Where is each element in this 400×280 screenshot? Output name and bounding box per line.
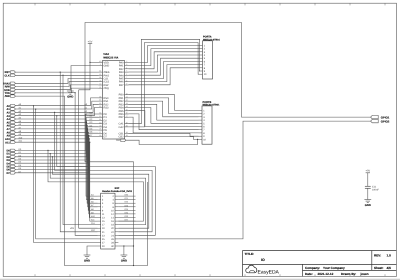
svg-text:GND: GND [365, 204, 371, 207]
wire CB1 to PORTB pin9 [129, 133, 199, 136]
node A8 flag [11, 131, 16, 134]
svg-text:1.0: 1.0 [387, 254, 392, 258]
node D7 flag [11, 172, 16, 175]
svg-text:6: 6 [126, 73, 127, 76]
wire D1 to VIA D1 [15, 117, 98, 153]
svg-text:18: 18 [126, 131, 128, 134]
svg-text:1: 1 [100, 63, 101, 66]
wire A0 branch to EXP pin27 [34, 106, 98, 243]
svg-text:29: 29 [99, 125, 101, 128]
wire TXD branch to EXP pin23 [75, 93, 97, 236]
svg-text:GND: GND [104, 65, 110, 68]
svg-text:W65C22-STB01: W65C22-STB01 [203, 103, 221, 106]
node D1 flag [11, 152, 16, 155]
svg-text:+5V: +5V [88, 40, 93, 43]
svg-text:PB7: PB7 [119, 116, 124, 119]
node D6 flag [11, 168, 16, 171]
node A9 flag [11, 134, 16, 137]
node /VIA2 flag [11, 82, 16, 85]
VIA2 right pins [119, 60, 129, 139]
svg-text:EasyEDA: EasyEDA [258, 270, 280, 276]
svg-text:34: 34 [99, 70, 101, 73]
svg-text:D7: D7 [104, 136, 108, 139]
svg-text:19: 19 [126, 134, 128, 137]
svg-text:7: 7 [126, 76, 127, 79]
svg-text:/WR: /WR [5, 95, 10, 98]
svg-text:12: 12 [126, 99, 128, 102]
svg-text:RS3: RS3 [104, 107, 110, 110]
connector EXP header body [101, 193, 115, 249]
svg-text:GND: GND [67, 95, 73, 98]
wire SOB to VIA [15, 85, 98, 90]
svg-text:27: 27 [99, 131, 101, 134]
svg-text:Date:: Date: [305, 272, 313, 276]
PORTA pins 1-10 [199, 44, 207, 76]
svg-text:13: 13 [126, 102, 128, 105]
node R/W flag [11, 85, 16, 88]
svg-text:/IRQ: /IRQ [104, 87, 109, 90]
svg-text:Header-Female-2.54_2x15: Header-Female-2.54_2x15 [102, 190, 132, 193]
node GPIO2 flag (right) [371, 119, 379, 122]
svg-text:D7: D7 [6, 172, 10, 175]
svg-text:2021-12-12: 2021-12-12 [318, 272, 334, 276]
svg-text:31: 31 [99, 118, 101, 121]
svg-text:4/5: 4/5 [387, 266, 392, 270]
node A2 flag [11, 111, 16, 114]
node CLK flag [11, 74, 16, 77]
svg-text:CLK: CLK [4, 74, 9, 77]
wire A2 to RS2 [15, 104, 98, 112]
wire EXP pin29 to ground [87, 246, 98, 255]
wire bundle A4-A11 down to EXP [15, 118, 97, 221]
svg-text:10: 10 [126, 92, 128, 95]
capacitor C11 100nF [365, 185, 371, 187]
svg-text:RST: RST [91, 229, 96, 232]
svg-text:32: 32 [99, 115, 101, 118]
svg-text:CB2: CB2 [119, 136, 125, 139]
svg-text:PA7: PA7 [119, 84, 124, 87]
wire D2 to VIA D2 [15, 120, 98, 156]
wire RST branch to EXP pin21 [60, 72, 97, 232]
wire bundle PB0-PB7 to PORTB [129, 95, 199, 133]
node D5 flag [11, 165, 16, 168]
wire RST to /RES [15, 71, 98, 73]
svg-text:36: 36 [99, 102, 101, 105]
svg-text:W65C22 VIA: W65C22 VIA [103, 56, 118, 59]
svg-text:GND: GND [84, 259, 90, 262]
svg-text:PORTB: PORTB [203, 101, 212, 104]
node A10 flag [11, 138, 16, 141]
svg-text:Company:: Company: [305, 266, 320, 270]
EasyEDA logo [246, 265, 280, 275]
svg-text:5: 5 [126, 70, 127, 73]
wire loops EXP pins to D bus [47, 112, 155, 236]
svg-text:+5V: +5V [365, 170, 370, 173]
ground (EXP right) [121, 254, 128, 256]
svg-text:28: 28 [99, 128, 101, 131]
wire /VIA2 to VIA [15, 79, 98, 84]
node A7 flag [11, 128, 16, 131]
svg-text:Your Company: Your Company [323, 266, 345, 270]
power +5V flag on EXP pin19 wire [79, 90, 98, 228]
svg-text:38: 38 [99, 96, 101, 99]
svg-text:TITLE:: TITLE: [245, 252, 255, 256]
wire +5V to VDD [79, 44, 99, 90]
node D4 flag [11, 162, 16, 165]
op-amp U? : VIA2 W65C22 chip body [103, 61, 125, 140]
node /WR flag [11, 95, 16, 98]
wire R/W to VIA [15, 82, 98, 87]
wire EXP pin30 to ground [123, 246, 125, 255]
wire TXD junction [71, 92, 75, 94]
wire A1 branch to EXP pin25 [36, 109, 98, 239]
wire C11 to ground [367, 188, 369, 199]
wire D6 to VIA D6 [15, 133, 98, 169]
svg-text:PORTA: PORTA [203, 36, 212, 39]
svg-text:W65C22-STB01: W65C22-STB01 [203, 38, 221, 41]
node A1 flag [11, 108, 16, 111]
svg-text:17: 17 [126, 115, 128, 118]
svg-text:16: 16 [126, 112, 128, 115]
wire A0 to RS0 [15, 98, 98, 106]
node A4 flag [11, 118, 16, 121]
svg-text:21: 21 [99, 86, 101, 89]
EXP pins 1-30 [98, 195, 119, 248]
svg-text:15: 15 [126, 108, 128, 111]
svg-text:33: 33 [99, 112, 101, 115]
ground (EXP left) [84, 254, 91, 256]
wire CLK branch to EXP pin17 [63, 75, 98, 224]
wire D4 to VIA D4 [15, 127, 98, 163]
node SOB flag [11, 88, 16, 91]
VIA2 left pins [99, 60, 110, 139]
wire CLK to PHI2 [15, 74, 98, 76]
node A0 flag [11, 104, 16, 107]
svg-text:30: 30 [99, 121, 101, 124]
node D0 flag [11, 149, 16, 152]
svg-text:37: 37 [99, 99, 101, 102]
svg-text:100nF: 100nF [372, 188, 379, 191]
node GPIO1 flag (right) [371, 115, 379, 118]
PORTB pins 1-10 [199, 109, 207, 141]
wire bundle CA1,CA2,PA0-PA7 to PORTA [129, 39, 200, 127]
EXP right short stubs with labels [118, 194, 135, 222]
svg-text:25: 25 [99, 73, 101, 76]
node D3 flag [11, 159, 16, 162]
svg-text:11: 11 [126, 96, 128, 99]
connector PORTB header body [202, 106, 212, 144]
window bottom edge band [0, 279, 400, 280]
svg-text:22: 22 [99, 83, 101, 86]
wire GND pin to ground [71, 66, 99, 91]
wire A1 to RS1 [15, 101, 98, 109]
svg-text:GND: GND [121, 259, 127, 262]
svg-text:Drawn By:: Drawn By: [341, 272, 356, 276]
svg-text:9: 9 [126, 83, 127, 86]
wire +5V to C11 [367, 173, 369, 187]
svg-text:A11: A11 [5, 141, 10, 144]
node RST flag [11, 71, 16, 74]
node D2 flag [11, 156, 16, 159]
wire D7 to VIA D7 [15, 136, 98, 172]
node CB2 flag (below VIA) [121, 139, 126, 142]
svg-text:REV:: REV: [374, 254, 381, 258]
svg-text:40: 40 [99, 60, 101, 63]
svg-text:23: 23 [99, 79, 101, 82]
svg-text:+5V: +5V [70, 227, 75, 230]
svg-text:josen: josen [360, 272, 369, 276]
wire A3 to RS3 [15, 108, 98, 116]
svg-text:8: 8 [126, 79, 127, 82]
node A6 flag [11, 124, 16, 127]
svg-text:CA2: CA2 [119, 126, 125, 129]
svg-text:24: 24 [99, 76, 101, 79]
svg-text:GPIO2: GPIO2 [381, 120, 390, 124]
svg-text:3: 3 [126, 63, 127, 66]
wire D0 to VIA D0 [15, 114, 98, 150]
svg-text:14: 14 [126, 105, 128, 108]
ground (cap) [364, 199, 371, 201]
wire EXP pin24 to right flag GPIO2 [118, 121, 370, 239]
connector PORTA header body [203, 41, 213, 79]
node TXD flag [11, 92, 16, 95]
wire D3 to VIA D3 [15, 124, 98, 160]
svg-text:39: 39 [126, 125, 128, 128]
title block [243, 251, 397, 277]
svg-text:4: 4 [126, 66, 127, 69]
svg-text:2: 2 [126, 60, 127, 63]
svg-text:26: 26 [99, 134, 101, 137]
node A3 flag [11, 114, 16, 117]
node A5 flag [11, 121, 16, 124]
svg-text:40: 40 [126, 121, 128, 124]
svg-text:CLK: CLK [91, 222, 96, 225]
svg-text:Sheet:: Sheet: [374, 266, 383, 270]
wire CB2 flag to PORTB pin10 [126, 139, 198, 144]
wire /WR long loop around bottom [15, 96, 147, 265]
wire D5 to VIA D5 [15, 130, 98, 166]
wire CB2 to PORTB pin10 [129, 137, 199, 140]
svg-text:IO: IO [261, 258, 265, 262]
svg-text:35: 35 [99, 105, 101, 108]
wire EXP pin30 via top frame to right flag GPIO1 [85, 23, 371, 266]
node A11 flag [11, 141, 16, 144]
wire TXD to VIA [15, 88, 98, 93]
ground (VIA) [67, 90, 74, 92]
